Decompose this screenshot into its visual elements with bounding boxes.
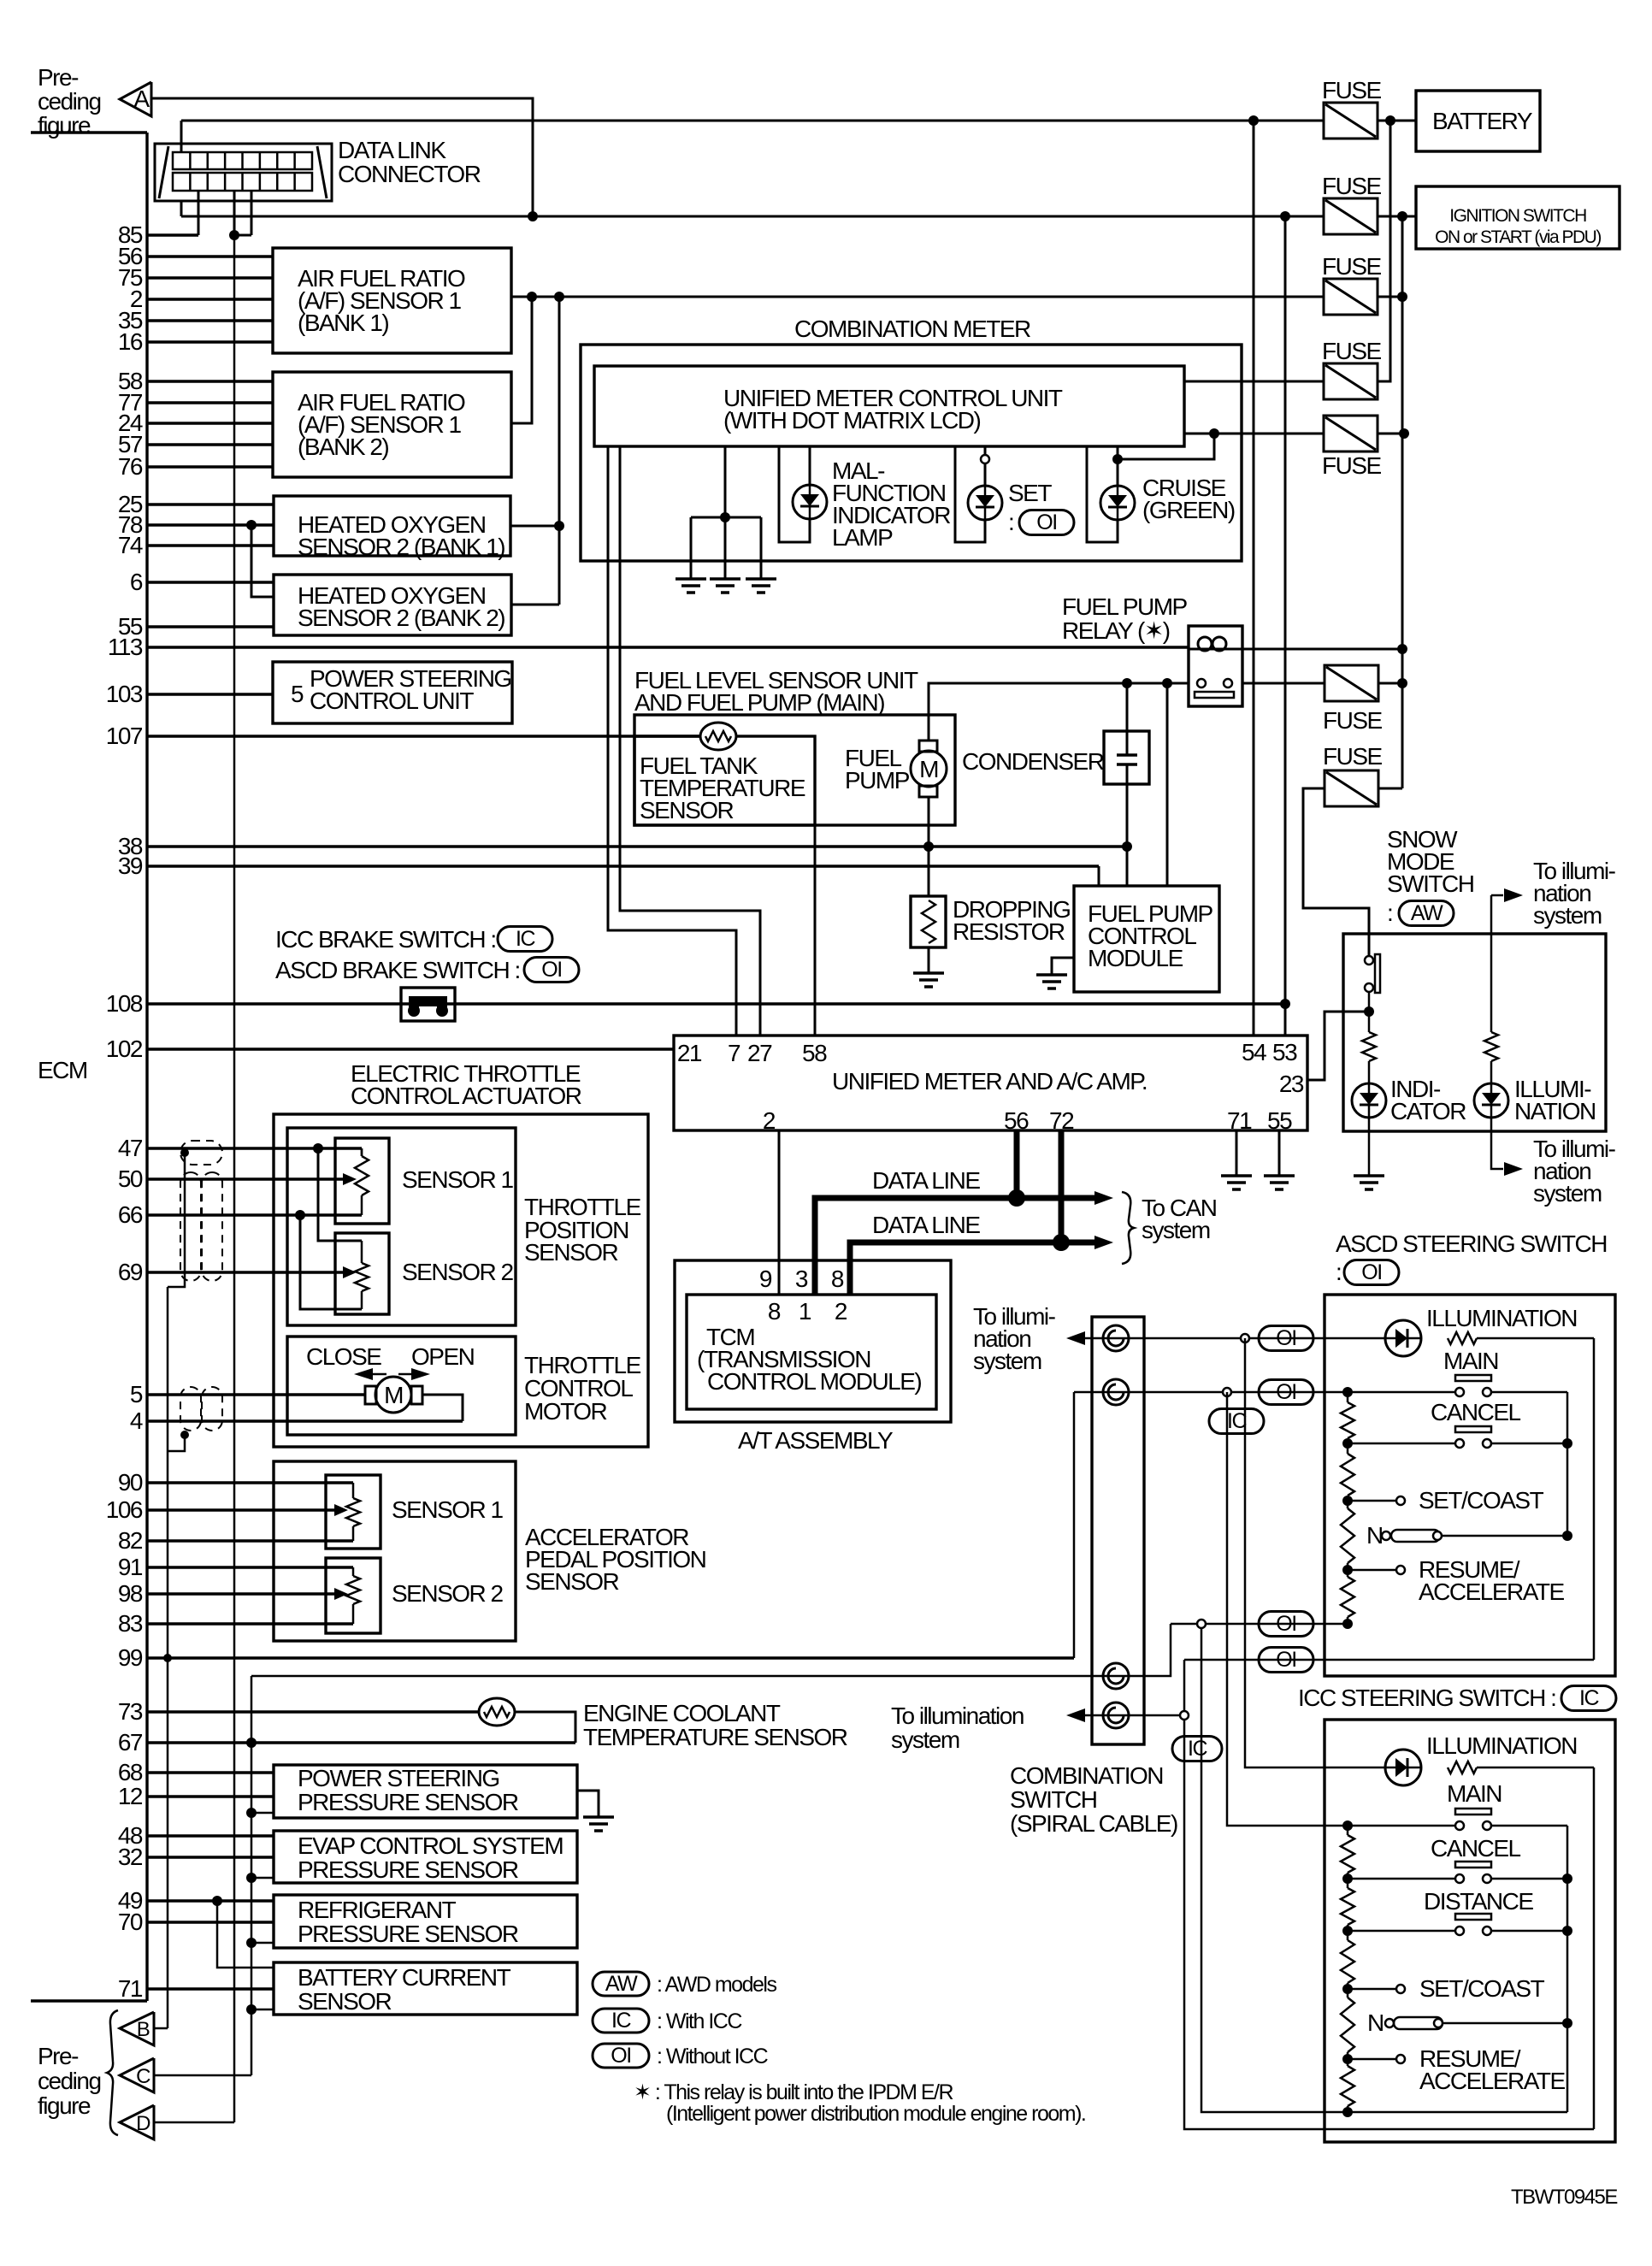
wire 66 to sensor2 bottom (300, 1215, 362, 1309)
wire ICC ground feed (1201, 1628, 1347, 2112)
svg-text:SENSOR 2: SENSOR 2 (402, 1259, 514, 1285)
svg-text:TEMPERATURE SENSOR: TEMPERATURE SENSOR (583, 1724, 847, 1750)
node data line 2 / amp 72 (1059, 1130, 1065, 1242)
svg-text:A: A (133, 86, 150, 112)
svg-text:M: M (919, 756, 938, 782)
node ASCD resume (1342, 1565, 1353, 1575)
svg-text:83: 83 (118, 1610, 143, 1637)
wire DLC K-line vertical to preceding figure D (233, 235, 236, 2122)
svg-text:FUSE: FUSE (1322, 173, 1382, 199)
wire 39 to FPCM (1098, 866, 1100, 886)
wire ECM pin 73 (147, 1710, 479, 1713)
svg-text:D: D (136, 2112, 150, 2135)
meter ground branch (724, 446, 727, 517)
svg-text::: : (1336, 1259, 1341, 1285)
combination switch coil 3 (1103, 1663, 1129, 1689)
accelerator pedal position sensor box (274, 1461, 516, 1641)
wire shield drain upper (168, 1153, 185, 1287)
wire fuel pump to 38 line (928, 797, 930, 847)
unified meter and A/C amp box (674, 1036, 1307, 1130)
svg-text:ILLUMINATION: ILLUMINATION (1426, 1732, 1577, 1759)
shield capsules 5/4 (180, 1387, 201, 1431)
data line 2 (CAN-L) (850, 1242, 1094, 1295)
ICC distance switch (1348, 1930, 1460, 1933)
fuse F3 (1324, 279, 1378, 315)
svg-text:27: 27 (747, 1040, 772, 1066)
combination switch coil 2 (1103, 1379, 1129, 1405)
svg-text:OI: OI (1276, 1648, 1295, 1672)
ignition switch box (1416, 186, 1620, 249)
svg-text:98: 98 (118, 1580, 143, 1607)
ASCD resistor 2 (1341, 1454, 1354, 1496)
ASCD steering switch box (1325, 1295, 1615, 1676)
snow mode AW pill (1399, 901, 1454, 926)
node ground bus REFR (246, 1938, 257, 1948)
wire FTTS sender to amp pin 58 (814, 825, 817, 1036)
ICC steering switch box (1325, 1720, 1615, 2142)
svg-text:(SPIRAL CABLE): (SPIRAL CABLE) (1010, 1810, 1177, 1837)
air fuel ratio sensor 1 bank 2 box (273, 372, 511, 477)
node ICC chain bottom (1342, 2107, 1353, 2117)
data link connector grid (173, 152, 312, 169)
FPCM ground stub (1052, 958, 1074, 975)
ICC resistor 5 (1341, 2066, 1354, 2106)
svg-text:PUMP: PUMP (845, 767, 910, 794)
wire ECM pin 49 (147, 1899, 274, 1902)
node ICC cancel (1342, 1874, 1353, 1884)
malfunction indicator lamp LED (793, 485, 827, 519)
svg-text:EVAP CONTROL SYSTEM: EVAP CONTROL SYSTEM (298, 1832, 563, 1859)
wire 47 to sensor2 (318, 1148, 362, 1241)
svg-text:RELAY (✶): RELAY (✶) (1062, 617, 1170, 644)
wire ECM pin 85 (147, 233, 198, 236)
fuel pump relay contact (1197, 679, 1206, 687)
svg-text:90: 90 (118, 1469, 143, 1496)
ASCD resistor 3 (1341, 1508, 1354, 1563)
svg-text:(Intelligent power distributio: (Intelligent power distribution module e… (666, 2102, 1085, 2126)
wire ASCD main feed (1074, 1391, 1460, 1394)
svg-text:53: 53 (1272, 1039, 1297, 1065)
set lamp branch (955, 446, 985, 542)
svg-text:REFRIGERANT: REFRIGERANT (298, 1897, 457, 1923)
svg-text::: : (1008, 509, 1013, 535)
svg-text:56: 56 (1004, 1107, 1029, 1134)
fuse F4 (1324, 363, 1378, 399)
legend IC pill (593, 2009, 649, 2033)
svg-text:12: 12 (118, 1783, 143, 1809)
set lamp LED (968, 486, 1002, 520)
svg-text:FUSE: FUSE (1323, 707, 1383, 734)
wire amp pin 55 ground (1278, 1130, 1281, 1176)
connector triangle C (120, 2058, 154, 2092)
wire ECM pin 107 (147, 735, 701, 737)
wire B to shield drain (154, 2027, 168, 2030)
svg-text:system: system (1142, 1217, 1210, 1243)
svg-text:SET/COAST: SET/COAST (1419, 1487, 1544, 1514)
wire ECM pin 66 (147, 1213, 362, 1216)
svg-text:1: 1 (799, 1298, 811, 1325)
svg-text:71: 71 (118, 1975, 143, 2002)
ground PSPS (583, 1815, 614, 1819)
wire meter output 7 to amp (608, 446, 736, 1036)
wire ignition right rail (1401, 216, 1404, 788)
svg-text:: With ICC: : With ICC (657, 2009, 742, 2033)
node ground bus BCS (246, 2004, 257, 2015)
node 47 branch (313, 1143, 323, 1154)
ground amp 55 (1264, 1174, 1295, 1177)
wire ICC illumination return rail (1593, 1767, 1596, 2129)
ICC IC pill (1561, 1686, 1616, 1711)
node fuel pump relay coil feed (1397, 644, 1407, 654)
data line 1 (CAN-H) (815, 1198, 1094, 1295)
node fuse5 right (1399, 428, 1409, 439)
wire ECM pin 68 (147, 1771, 274, 1773)
ICC N switch (1385, 2019, 1394, 2027)
svg-text:NATION: NATION (1514, 1098, 1596, 1124)
node fuse3 right (1397, 292, 1407, 302)
wire ECM pin 32 (147, 1856, 274, 1858)
wire ECM pin 39 (147, 865, 1099, 867)
wire battery feed line y=141 (181, 120, 1324, 122)
wire from A to fuse column (152, 98, 533, 216)
svg-text:M: M (384, 1382, 403, 1408)
malfunction indicator lamp branch (779, 446, 810, 542)
svg-text:BATTERY: BATTERY (1432, 108, 1533, 134)
wire ECM pin 47 (147, 1147, 362, 1149)
electric throttle control actuator box (274, 1114, 648, 1447)
wire ECM pin 58 (147, 380, 273, 382)
node fuse6 right (1397, 678, 1407, 688)
OI pill ground row (1259, 1612, 1313, 1637)
wire ECM pin 102 (147, 1047, 674, 1050)
svg-text:74: 74 (118, 532, 143, 558)
wire ECM pin 77 (147, 401, 273, 404)
svg-text:OI: OI (1276, 1326, 1295, 1350)
wire ASCD illumination return (1477, 1337, 1594, 1340)
connector circle coil 4 (1180, 1711, 1189, 1720)
wire UMCU to fuse5 (1184, 433, 1324, 435)
svg-text:SENSOR: SENSOR (298, 1988, 392, 2015)
snow mode switch contacts (1365, 956, 1373, 965)
svg-text:6: 6 (130, 569, 143, 595)
node battery feed right (1385, 115, 1395, 126)
combination meter box (581, 345, 1242, 561)
svg-text:ILLUMINATION: ILLUMINATION (1426, 1305, 1577, 1331)
ground amp 71 (1221, 1174, 1252, 1177)
wire ECM pin 55 (147, 625, 274, 628)
svg-text:OI: OI (1361, 1260, 1381, 1284)
cruise lamp LED (1100, 486, 1135, 520)
svg-text:N: N (1367, 2009, 1384, 2036)
svg-text:PRESSURE SENSOR: PRESSURE SENSOR (298, 1789, 518, 1815)
svg-text:IGNITION SWITCH: IGNITION SWITCH (1449, 206, 1586, 226)
svg-text:AW: AW (1411, 901, 1443, 925)
svg-text:SENSOR 2 (BANK 2): SENSOR 2 (BANK 2) (298, 605, 504, 631)
wire illumination OI row (1184, 1659, 1594, 1661)
svg-text:113: 113 (108, 634, 143, 660)
svg-text:Pre-: Pre- (38, 2043, 79, 2069)
svg-text:68: 68 (118, 1759, 143, 1785)
svg-text:PRESSURE SENSOR: PRESSURE SENSOR (298, 1921, 518, 1947)
arrow snow illumination top (1491, 894, 1503, 897)
svg-text:67: 67 (118, 1729, 143, 1756)
wire HO2S B2 output (511, 604, 559, 606)
connector triangle D (120, 2105, 154, 2139)
wire AFR1 B2 output (511, 297, 532, 423)
svg-text:SET: SET (1008, 480, 1052, 506)
wire ECM pin 75 (147, 276, 273, 279)
node DLC K-line / 85 (229, 230, 239, 240)
wire ECM pin 6 (147, 581, 274, 583)
wire fuse5 right (1378, 433, 1402, 435)
IC pill spiral cable (1172, 1737, 1222, 1761)
wire motor return to pin 4 (422, 1395, 463, 1421)
wire condenser node to FPCM (1126, 847, 1129, 886)
wire ICC set/coast (1348, 1988, 1396, 1991)
svg-text:ENGINE COOLANT: ENGINE COOLANT (583, 1700, 781, 1726)
ASCD main switch (1455, 1375, 1491, 1381)
wire ECM pin 57 (147, 443, 273, 446)
node 49 branch (212, 1896, 222, 1906)
battery current sensor box (274, 1962, 577, 2015)
wire ECM pin 48 (147, 1834, 274, 1837)
legend AW pill (593, 1972, 649, 1996)
throttle control motor (365, 1386, 376, 1404)
data link connector body (155, 144, 332, 201)
wire ASCD ground row (1171, 1623, 1348, 1626)
wire fuse3 right (1378, 296, 1402, 298)
wire ICC resume (1348, 2058, 1396, 2061)
node ground bus 67 (246, 1738, 257, 1748)
svg-text:FUSE: FUSE (1322, 253, 1382, 280)
svg-text:FUSE: FUSE (1322, 452, 1382, 479)
wire ECM pin 50 (147, 1177, 345, 1180)
snow illumination resistor (1484, 1032, 1498, 1061)
node ICC distance right (1562, 1926, 1572, 1936)
wire ECM pin 4 (147, 1419, 463, 1422)
wire snow illumination branch (1490, 895, 1493, 1032)
ground FPCM (1036, 973, 1067, 977)
svg-text:ON or START (via PDU): ON or START (via PDU) (1435, 227, 1601, 247)
wire battery node down to fuse4 (1378, 121, 1390, 381)
wire ECM pin 108 (147, 1002, 1285, 1005)
svg-text:MOTOR: MOTOR (524, 1398, 606, 1425)
svg-text:: Without ICC: : Without ICC (657, 2045, 769, 2068)
svg-text:ICC BRAKE SWITCH :: ICC BRAKE SWITCH : (275, 926, 496, 953)
svg-text:MAIN: MAIN (1443, 1348, 1498, 1374)
wire dropping resistor to ground (928, 947, 930, 973)
ICC illumination resistor (1448, 1761, 1477, 1773)
svg-text:107: 107 (106, 723, 143, 749)
svg-text:69: 69 (118, 1259, 143, 1285)
wire ECM pin 24 (147, 422, 273, 424)
svg-text:OI: OI (541, 958, 561, 982)
ICC main switch (1455, 1809, 1491, 1815)
to CAN system brace (1122, 1192, 1134, 1264)
wire DLC pin K-line (233, 191, 236, 235)
svg-text:58: 58 (802, 1040, 827, 1066)
svg-text:21: 21 (677, 1040, 702, 1066)
svg-text:(WITH DOT MATRIX LCD): (WITH DOT MATRIX LCD) (723, 407, 981, 434)
wire coil4 terminal down to ICC illumination return (1184, 1720, 1594, 2129)
wire pin54 feed vertical (1253, 121, 1255, 1036)
connector circle ICC return tap (1197, 1620, 1206, 1628)
svg-text:DISTANCE: DISTANCE (1424, 1888, 1533, 1915)
ICC illumination LED (1385, 1750, 1421, 1785)
node ground bus PSPS (246, 1808, 257, 1818)
set lamp OI pill (1019, 510, 1074, 535)
condenser capacitor (1126, 731, 1129, 755)
wire 99 to ASCD main feed (1073, 1392, 1076, 1658)
svg-text:3: 3 (795, 1266, 808, 1292)
node 108 joins pin53 feed (1280, 999, 1290, 1009)
svg-text::: : (1387, 900, 1392, 926)
ASCD illumination LED (1385, 1320, 1421, 1356)
wire fuse2 to ignition switch (1378, 215, 1416, 218)
node ICC distance (1342, 1926, 1353, 1936)
svg-text:COMBINATION: COMBINATION (1010, 1762, 1163, 1789)
wire IC main to ICC (1227, 1392, 1347, 1826)
ground meter 1 (676, 577, 706, 581)
TCM box (687, 1295, 936, 1409)
wire DLC pin to ECM 85 (198, 191, 200, 235)
svg-text:POWER STEERING: POWER STEERING (298, 1765, 499, 1791)
svg-text:TBWT0945E: TBWT0945E (1511, 2186, 1617, 2209)
svg-text:ASCD BRAKE SWITCH :: ASCD BRAKE SWITCH : (275, 957, 520, 983)
fuel pump relay coil (1198, 637, 1212, 651)
ECM bracket (31, 131, 147, 133)
APP sensor1 potentiometer (352, 1483, 355, 1498)
wire ground stub EVAP (251, 1877, 274, 1879)
svg-text:CATOR: CATOR (1390, 1098, 1466, 1124)
svg-text:CONDENSER: CONDENSER (962, 748, 1104, 775)
wire 78 branch to HO2S B2 (246, 520, 257, 530)
preceding figure brace (107, 2010, 118, 2135)
air fuel ratio sensor 1 bank 1 box (273, 248, 511, 353)
wire ECM pin 76 (147, 465, 273, 468)
svg-text:(BANK 2): (BANK 2) (298, 434, 388, 460)
wire ICC right rail (1566, 1826, 1569, 2112)
svg-text:CONTROL UNIT: CONTROL UNIT (310, 687, 474, 714)
wire ASCD ground to spiral cable coil 3 (251, 1624, 1171, 1676)
svg-text:SENSOR 1: SENSOR 1 (392, 1496, 504, 1523)
svg-text:OI: OI (611, 2044, 630, 2068)
shield capsule 47 (180, 1141, 222, 1165)
svg-text:IC: IC (1579, 1686, 1599, 1710)
wire ground stub PSPS (251, 1812, 274, 1815)
wire pin53 feed vertical (1284, 216, 1287, 1036)
svg-text:8: 8 (831, 1266, 844, 1292)
svg-text:71: 71 (1227, 1107, 1252, 1134)
svg-text:CONNECTOR: CONNECTOR (338, 161, 481, 187)
svg-text:ceding: ceding (38, 88, 101, 115)
ICC resistor 3 (1341, 1940, 1354, 1983)
node junction A-line/DLC line (528, 211, 538, 221)
ground snow indicator (1354, 1174, 1384, 1177)
wire ignition rail to fuse7 (1378, 788, 1402, 790)
wire ECT return (515, 1712, 575, 1743)
svg-text:ASCD STEERING SWITCH: ASCD STEERING SWITCH (1336, 1230, 1607, 1257)
wire ASCD main to right rail (1491, 1391, 1567, 1394)
node ground bus EVAP (246, 1873, 257, 1883)
wire fuse6 to rail (1378, 682, 1402, 685)
wire ECM pin 98 (147, 1592, 340, 1595)
ICC cancel switch (1348, 1878, 1460, 1880)
wire UMCU to fuse4 (1184, 381, 1324, 383)
svg-text:SENSOR: SENSOR (640, 797, 734, 823)
wire IC illumination to ICC (1245, 1338, 1385, 1767)
wire ignition feed line y=253 (181, 215, 1324, 218)
svg-text:(BANK 1): (BANK 1) (298, 310, 388, 336)
battery box (1416, 91, 1540, 151)
wire AFR1 B1 output to fuse3 line (511, 296, 1324, 298)
snow mode switch box (1343, 934, 1606, 1131)
svg-text:ECM: ECM (38, 1057, 87, 1083)
connector circle illumination (1241, 1334, 1249, 1342)
svg-text:55: 55 (1267, 1107, 1292, 1134)
svg-text:SWITCH: SWITCH (1010, 1786, 1096, 1813)
TPS sensor2 box (335, 1233, 389, 1314)
wire ASCD cancel row (1348, 1443, 1460, 1445)
wire snow illumination to bottom arrow (1491, 1118, 1503, 1169)
legend OI pill (593, 2044, 649, 2068)
wire meter output 27 to amp (620, 446, 760, 1036)
APP sensor2 potentiometer (352, 1567, 355, 1576)
svg-text:ACCELERATE: ACCELERATE (1419, 2068, 1565, 2094)
svg-text:BATTERY CURRENT: BATTERY CURRENT (298, 1964, 511, 1991)
snow indicator resistor (1362, 1032, 1376, 1061)
wire ECM pin 103 (147, 693, 273, 695)
node ASCD chain top (1342, 1387, 1353, 1397)
node AFR outputs (527, 292, 537, 302)
node ignition line at fuse2 (1280, 211, 1290, 221)
svg-text:SENSOR 2: SENSOR 2 (392, 1580, 504, 1607)
wire fuse1 to battery (1378, 120, 1416, 122)
connector triangle B (120, 2012, 154, 2045)
combination switch coil 4 (1103, 1702, 1129, 1728)
svg-text:DATA LINE: DATA LINE (872, 1167, 980, 1194)
wire ECM pin 83 (147, 1622, 353, 1625)
wire ECM pin 69 (147, 1271, 345, 1273)
wire amp pin 2 to TCM pin 9/8 (778, 1130, 781, 1295)
svg-text:47: 47 (118, 1135, 143, 1161)
connector triangle A (120, 82, 151, 116)
fuel pump motor (919, 741, 937, 752)
svg-text:108: 108 (106, 990, 143, 1017)
fuse F2 (1324, 198, 1378, 234)
wire ground stub REFR (251, 1942, 274, 1944)
wire ECM pin 38 (147, 845, 1127, 847)
node shield drain 5/4 (180, 1431, 189, 1439)
brake switch box (401, 988, 455, 1021)
ASCD N switch (1382, 1531, 1390, 1540)
node fuse5 feed branch (1209, 428, 1219, 439)
wire 47 into sensor1 (361, 1148, 363, 1156)
wire C to sensor ground bus (154, 2074, 251, 2077)
svg-text:OI: OI (1276, 1612, 1295, 1636)
node ICC chain top (1342, 1820, 1353, 1831)
svg-text:106: 106 (106, 1496, 143, 1523)
node ASCD cancel (1342, 1438, 1353, 1449)
svg-text:IC: IC (611, 2009, 631, 2033)
svg-text:✶ : This relay is built into t: ✶ : This relay is built into the IPDM E/… (634, 2080, 953, 2104)
wire ECM pin 106 (147, 1508, 340, 1511)
svg-text:70: 70 (118, 1909, 143, 1935)
wire ICC illumination return (1477, 1767, 1594, 1769)
wire ASCD right rail (1566, 1392, 1569, 1536)
svg-text:N: N (1366, 1522, 1383, 1549)
wire ICC ground row (1347, 2111, 1567, 2114)
